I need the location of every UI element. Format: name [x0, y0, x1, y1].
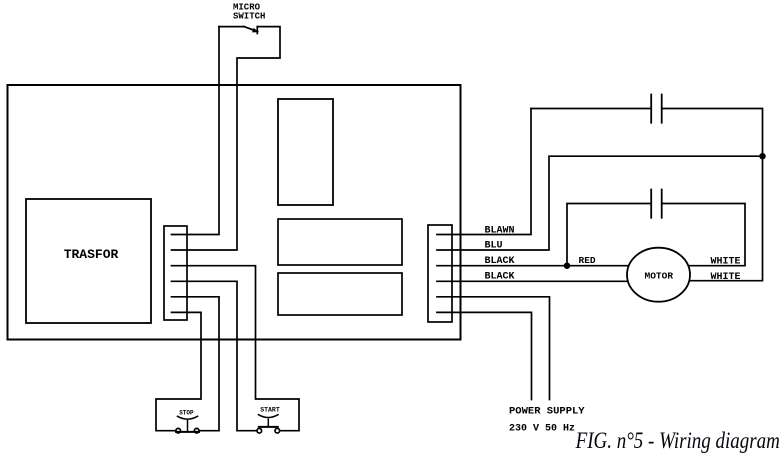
svg-text:FIG. n°5 - Wiring diagram: FIG. n°5 - Wiring diagram — [575, 427, 780, 453]
svg-text:BLAWN: BLAWN — [485, 225, 515, 236]
svg-text:230 V 50 Hz: 230 V 50 Hz — [509, 423, 575, 434]
svg-text:RED: RED — [579, 255, 596, 266]
connector J2 (right) — [428, 225, 452, 322]
wire J2 pin2 (BLU) to node junction right — [437, 156, 763, 250]
svg-text:STOP: STOP — [179, 409, 194, 416]
junction node RED — [565, 263, 570, 268]
stop button SB1 (NC) — [176, 428, 181, 433]
capacitor C1 — [651, 95, 662, 123]
wire capacitor C2 run with side drops — [567, 204, 651, 266]
svg-text:START: START — [260, 407, 280, 414]
wire J1 pin4 to start button left contact — [172, 281, 257, 430]
wire J2 pin3 (BLACK/RED) to motor left — [437, 265, 658, 267]
svg-text:TRASFOR: TRASFOR — [64, 247, 119, 262]
wire J1 pin5 to stop button right contact — [172, 297, 220, 431]
capacitor C2 — [651, 190, 662, 218]
wire J2 pin6 to power supply — [437, 312, 532, 399]
main enclosure box — [8, 85, 461, 340]
svg-text:WHITE: WHITE — [711, 256, 741, 267]
junction node at right vertical — [760, 154, 765, 159]
internal block (tall rectangle) — [278, 99, 333, 205]
wire J1 pin1 to micro switch left — [172, 27, 220, 235]
internal block (upper middle rectangle) — [278, 219, 402, 265]
wire J1 pin2 to micro switch right — [172, 27, 281, 250]
wire J1 pin6 to stop button left contact — [156, 312, 201, 430]
transformer TRASFOR box — [26, 199, 151, 323]
micro switch S1 — [219, 26, 244, 28]
connector J1 (left) — [164, 226, 187, 320]
wire capacitor C1 top run and right drop to motor lower right — [531, 108, 651, 110]
svg-text:MOTOR: MOTOR — [645, 270, 674, 281]
wire J2 pin4 (BLACK) to motor lower left — [437, 280, 658, 282]
motor M1 — [627, 248, 690, 302]
internal block (lower middle rectangle) — [278, 273, 402, 315]
svg-text:BLU: BLU — [485, 240, 503, 251]
start button SB2 (NO) — [257, 428, 262, 433]
svg-text:WHITE: WHITE — [711, 272, 741, 283]
wire J1 pin3 to start button right contact — [172, 266, 300, 431]
wire J2 pin1 (BLAWN) to capacitor C1 left — [437, 109, 531, 235]
svg-text:BLACK: BLACK — [485, 272, 515, 283]
svg-text:BLACK: BLACK — [485, 256, 515, 267]
svg-text:POWER SUPPLY: POWER SUPPLY — [509, 406, 585, 418]
svg-text:SWITCH: SWITCH — [233, 12, 265, 22]
wire J2 pin5 to power supply — [437, 297, 550, 400]
